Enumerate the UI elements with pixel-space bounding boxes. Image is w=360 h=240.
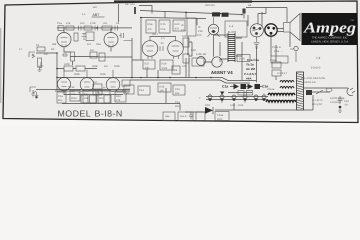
resistor R3 (58, 26, 64, 31)
label auto (330, 97, 345, 104)
svg-text:+: + (78, 91, 80, 95)
svg-text:R15: R15 (161, 23, 166, 26)
resistor R27 box (143, 60, 155, 70)
svg-text:22n: 22n (80, 22, 85, 25)
capacitor C6 vertical (82, 34, 87, 41)
svg-text:6 ft (long): 6 ft (long) (330, 101, 341, 104)
capacitor C32 (338, 96, 350, 107)
capacitor C6 tall (187, 18, 196, 36)
svg-text:68k: 68k (52, 43, 57, 46)
wire right edge drop (275, 45, 277, 56)
svg-text:TM: TM (350, 19, 353, 22)
svg-text:150k: 150k (162, 67, 168, 70)
wire drop x197 (196, 18, 198, 25)
label box B-18 (237, 55, 250, 62)
capacitor C5 50V (125, 3, 152, 14)
capacitor C30 (189, 112, 193, 120)
wire screen (261, 12, 263, 26)
resistor R30 box (172, 66, 180, 74)
wire phase splitter drops (188, 37, 192, 57)
svg-text:+: + (103, 86, 105, 90)
svg-text:R5a: R5a (96, 43, 101, 46)
wire cathode (64, 47, 73, 66)
resistor boxes under bias (238, 91, 244, 96)
ground C32 (338, 106, 342, 113)
output tube V6 (265, 24, 277, 36)
svg-text:680k: 680k (92, 65, 98, 68)
svg-text:R10: R10 (116, 95, 121, 98)
cathode cap V5 (254, 37, 260, 48)
resistor R10 (115, 92, 126, 102)
svg-text:24v: 24v (175, 92, 180, 95)
svg-text:.04: .04 (344, 104, 348, 107)
svg-text:470: 470 (182, 35, 187, 38)
svg-text:1M: 1M (87, 43, 91, 46)
T2 primary coil row2 (266, 100, 296, 102)
svg-text:.02: .02 (160, 42, 164, 45)
resistor R28 (158, 83, 171, 93)
wire mid bus y80 (130, 80, 250, 83)
resistor R29 box (160, 60, 173, 70)
svg-text:. .. . ...: . .. . ... (76, 105, 94, 109)
bias cap C20 (241, 84, 247, 89)
resistor network cluster (83, 90, 110, 103)
svg-text:680k: 680k (74, 73, 80, 76)
svg-text:C5a: C5a (161, 28, 166, 31)
wire psu to right (270, 95, 313, 110)
svg-text:J2n: J2n (103, 22, 108, 25)
wire pots bus (57, 77, 127, 79)
label C1b (198, 26, 203, 33)
svg-text:467: 467 (93, 6, 98, 9)
svg-text:S-1 117V: S-1 117V (312, 99, 323, 102)
ground J2 dot (35, 96, 37, 98)
resistor R12 (76, 66, 85, 71)
ground mid (39, 62, 43, 69)
svg-text:20u: 20u (99, 97, 104, 100)
svg-text:C31a: C31a (217, 114, 224, 117)
resistor R22 dark (222, 13, 229, 17)
bias diode D2 (234, 84, 240, 89)
svg-text:C2a: C2a (99, 93, 104, 96)
input jack J2 (30, 87, 36, 93)
tube V7 (57, 69, 70, 90)
svg-text:SR1: SR1 (205, 104, 211, 107)
wire rail connector (164, 12, 166, 19)
wire V1b cathode (110, 47, 112, 52)
wire B+ top (57, 27, 132, 29)
svg-text:C1b: C1b (181, 29, 186, 32)
capacitor C10 (160, 46, 163, 51)
wire plates up (64, 28, 111, 33)
wire tops V2 V3 (150, 36, 176, 39)
resistor R33 (124, 85, 134, 95)
resistor R5 (66, 26, 74, 30)
svg-text:C16: C16 (175, 88, 180, 91)
svg-text:500k: 500k (100, 73, 106, 76)
wire bias column (275, 56, 277, 80)
output tube V5 (250, 24, 263, 37)
label row values (57, 22, 120, 25)
label Jb C1b left (181, 24, 186, 32)
svg-text:R29: R29 (162, 63, 167, 66)
svg-text:C14: C14 (139, 89, 144, 92)
capacitor C16 box (173, 85, 185, 95)
wire y57 (98, 56, 132, 58)
heater H5 (254, 95, 258, 101)
tube V2 6SL7 (142, 37, 158, 59)
capacitor C3 (79, 26, 82, 31)
svg-text:A4-: A4- (248, 4, 252, 7)
speaker SP1 (284, 14, 301, 41)
resistor R14 (192, 58, 204, 66)
svg-text:LINDEN, NEW JERSEY, U.S.A.: LINDEN, NEW JERSEY, U.S.A. (311, 41, 349, 44)
svg-text:1 1: 1 1 (82, 13, 86, 16)
capacitor C2 (62, 53, 68, 57)
svg-text:220k: 220k (64, 63, 70, 66)
svg-text:2-1,3,5,7: 2-1,3,5,7 (277, 72, 288, 75)
T2 laminations (297, 72, 304, 110)
resistor R6 (84, 26, 92, 30)
tube V8 (80, 70, 94, 92)
svg-text:+: + (68, 85, 70, 89)
svg-text:470: 470 (197, 34, 202, 37)
svg-text:MODEL: MODEL (58, 108, 92, 118)
transformer T1 label box (225, 21, 247, 37)
wire pots bottom (64, 91, 123, 95)
psu small boxes row2 (81, 95, 111, 103)
svg-text:C1a C1a: C1a C1a (247, 58, 259, 62)
wire plate to tube V5 (244, 9, 248, 27)
heater H3 (220, 92, 236, 101)
wire filament pair (206, 97, 268, 100)
svg-text:R4a: R4a (84, 93, 89, 96)
capacitor C1b (70, 90, 80, 101)
svg-text:40k: 40k (173, 69, 178, 72)
svg-text:1M: 1M (90, 49, 94, 52)
heater H2 (220, 94, 224, 104)
svg-text:150k 1W: 150k 1W (196, 53, 207, 56)
svg-text:P-1,3,5,7: P-1,3,5,7 (244, 72, 257, 76)
svg-text:C1a: C1a (175, 101, 180, 104)
wire x220 vertical (219, 42, 221, 56)
svg-text:C1a: C1a (58, 95, 63, 98)
wire top rail to V6 (246, 8, 287, 25)
heater H1 (208, 94, 212, 101)
ground input (38, 67, 42, 72)
wire ch2 y56 (70, 56, 98, 58)
resistor R58 (173, 20, 185, 31)
wire tone top (57, 68, 97, 70)
capacitor C4 (115, 26, 118, 31)
ground bottom left2 (31, 90, 35, 97)
resistor R1 (37, 47, 45, 51)
scan edge streak (0, 28, 1, 103)
svg-text:β D•100: β D•100 (311, 67, 321, 70)
wire psu row (55, 88, 180, 111)
resistor R21 dark (212, 12, 220, 16)
paper background (0, 0, 360, 125)
bias diode D3 (248, 84, 254, 89)
wire filament to rect (233, 103, 235, 110)
wire B+ rail A (140, 11, 242, 15)
output transformer T1 winding (228, 33, 235, 62)
bias resistor stack (270, 59, 281, 76)
svg-text:1M: 1M (44, 53, 48, 56)
svg-text:9-8,6a: 9-8,6a (267, 88, 275, 91)
switch S1 (306, 90, 323, 95)
wire vertical channel bus (56, 53, 58, 90)
resistor R11 (64, 63, 73, 71)
capacitor C14 (138, 86, 150, 95)
svg-text:47k: 47k (148, 28, 153, 31)
svg-text:470: 470 (175, 28, 180, 31)
resistor R470 top (182, 35, 189, 47)
svg-text:2xL-4: 2xL-4 (180, 115, 187, 118)
bias cap C21 (255, 84, 261, 89)
svg-text:#4A: #4A (246, 77, 252, 81)
svg-text:R2: R2 (51, 48, 55, 51)
wire OT secondary down (241, 42, 243, 80)
tube V4b oval (212, 57, 222, 67)
wire T1 primary leads (214, 35, 243, 62)
svg-text:R1: R1 (36, 44, 40, 47)
label block rows (244, 58, 259, 81)
svg-text:THE AMPEG COMPANY, INC.: THE AMPEG COMPANY, INC. (312, 37, 349, 40)
svg-text:R18 22n: R18 22n (205, 4, 215, 7)
svg-text:AUTO WIRE: AUTO WIRE (330, 97, 345, 100)
svg-text:+: + (199, 96, 201, 100)
svg-text:C1a: C1a (222, 85, 228, 89)
resistor box 1M (86, 32, 94, 46)
resistor R55 (159, 20, 170, 33)
resistor R17 (99, 53, 105, 61)
svg-text:+: + (98, 91, 100, 95)
connector jack mid right (272, 46, 298, 62)
border frame (3, 1, 358, 123)
heater H4 (243, 95, 247, 103)
cathode resistor R4 (71, 52, 75, 61)
tube V9 (106, 70, 120, 92)
svg-text:ALL 470K RES 1/2W: ALL 470K RES 1/2W (301, 77, 326, 80)
svg-text:A6SN7 V4: A6SN7 V4 (211, 70, 233, 75)
resistor R20a (122, 80, 130, 92)
svg-text:47k: 47k (116, 99, 121, 102)
tube V3 6SL7 (168, 37, 184, 59)
resistor R470 bottom (182, 54, 189, 68)
svg-text:L.1: L.1 (229, 24, 234, 28)
svg-text:40u: 40u (175, 105, 180, 108)
resistor R2 (38, 58, 42, 67)
diode D1 (205, 104, 213, 114)
wire bias row (228, 87, 262, 93)
svg-text:wax: wax (165, 115, 170, 118)
svg-text:500k: 500k (114, 65, 120, 68)
svg-text:R28: R28 (160, 86, 165, 89)
note lines (301, 77, 326, 84)
svg-text:R•10% min: R•10% min (303, 81, 316, 84)
wire V6 down to conn (270, 37, 272, 57)
svg-text:C11: C11 (70, 86, 75, 89)
ground J2 (35, 92, 39, 96)
wire jack to grid (36, 52, 57, 54)
svg-text:Conn to: Conn to (272, 46, 282, 49)
svg-text:C1a: C1a (57, 22, 62, 25)
wire V5 cathode down (256, 47, 258, 83)
svg-text:470k: 470k (90, 22, 96, 25)
svg-text:1M: 1M (93, 81, 97, 84)
wire mid vertical x132 (132, 60, 158, 78)
svg-text:7b 2a: 7b 2a (246, 63, 254, 67)
resistor R50 (146, 20, 156, 33)
svg-text:T-2: T-2 (316, 56, 321, 60)
wire B+ rail B (140, 18, 206, 19)
top edge thick scan line (114, 0, 252, 2)
capacitor C7 (119, 33, 132, 41)
resistor R16 (90, 52, 97, 58)
svg-text:40u: 40u (58, 99, 63, 102)
wire pi (186, 58, 212, 78)
svg-text:L.5: L.5 (161, 37, 165, 40)
svg-text:B-I8-N: B-I8-N (95, 108, 123, 118)
node A (56, 52, 58, 54)
svg-text:6SL7: 6SL7 (152, 33, 159, 36)
box below connector (271, 56, 288, 63)
label V1 12AX7 underlined (82, 13, 105, 17)
annotation boxes below (163, 112, 229, 122)
MODEL B-18-N title (58, 108, 123, 118)
grid resistor R7 vertical (74, 33, 78, 41)
svg-text:C4: C4 (116, 22, 120, 25)
svg-text:C1b: C1b (71, 93, 76, 96)
capacitor C1a (57, 92, 66, 103)
label C18 R32 (191, 49, 207, 56)
AC plug (347, 88, 355, 96)
label S1 117VAC (312, 99, 323, 106)
tube V1b 12AX7 (104, 33, 118, 48)
wire speaker leads (277, 29, 284, 32)
svg-text:A47 50V: A47 50V (125, 3, 135, 6)
svg-text:R27: R27 (145, 63, 150, 66)
label row tone (92, 65, 120, 68)
svg-text:47k: 47k (66, 22, 71, 25)
tube V1a 12AX7 (57, 33, 71, 48)
wire mid bus y77.5 (127, 69, 256, 81)
svg-text:R5a: R5a (148, 23, 153, 26)
svg-text:60 cy AC: 60 cy AC (312, 103, 323, 106)
svg-text:450v: 450v (71, 97, 77, 100)
heater H6 (262, 94, 266, 101)
wire channel2 bus (36, 89, 130, 91)
svg-text:R20: R20 (175, 23, 180, 26)
junction dots scattered (56, 12, 243, 79)
svg-text:C1b: C1b (198, 30, 203, 33)
T2 secondary coil row2 (280, 87, 294, 89)
svg-text:450v: 450v (217, 118, 223, 121)
plus marks (68, 85, 105, 95)
fuse F1 (326, 88, 332, 92)
input jack J1 (29, 52, 35, 58)
tube V4a (197, 57, 206, 66)
wire V4 cathode down (213, 35, 215, 57)
svg-text:6.3V ~ R34: 6.3V ~ R34 (230, 104, 244, 107)
wire drop x186 (185, 12, 187, 18)
svg-text:AB7: AB7 (93, 13, 100, 17)
tube V4 small (208, 17, 220, 37)
svg-text:1M: 1M (104, 65, 108, 68)
wire ac top (303, 88, 348, 92)
capacitor C8 dark (243, 9, 246, 14)
wire speaker down (289, 32, 291, 47)
wire rectifier line (185, 110, 270, 112)
resistor stack R13 (93, 81, 102, 95)
Ampeg logo box (302, 13, 358, 45)
T2 secondary coil row (280, 81, 294, 83)
svg-text:An 2M: An 2M (246, 67, 256, 71)
T2 primary coil row1 (268, 93, 295, 95)
wire drop x132 (131, 38, 133, 60)
capacitor C3b (95, 26, 98, 31)
svg-text:Cha. →: Cha. → (274, 50, 283, 53)
wire drop x141 (140, 18, 142, 60)
svg-text:14k: 14k (160, 90, 165, 93)
svg-text:Ampeg: Ampeg (303, 21, 357, 37)
wire from top edge (118, 4, 120, 22)
resistor R8 (102, 26, 112, 30)
